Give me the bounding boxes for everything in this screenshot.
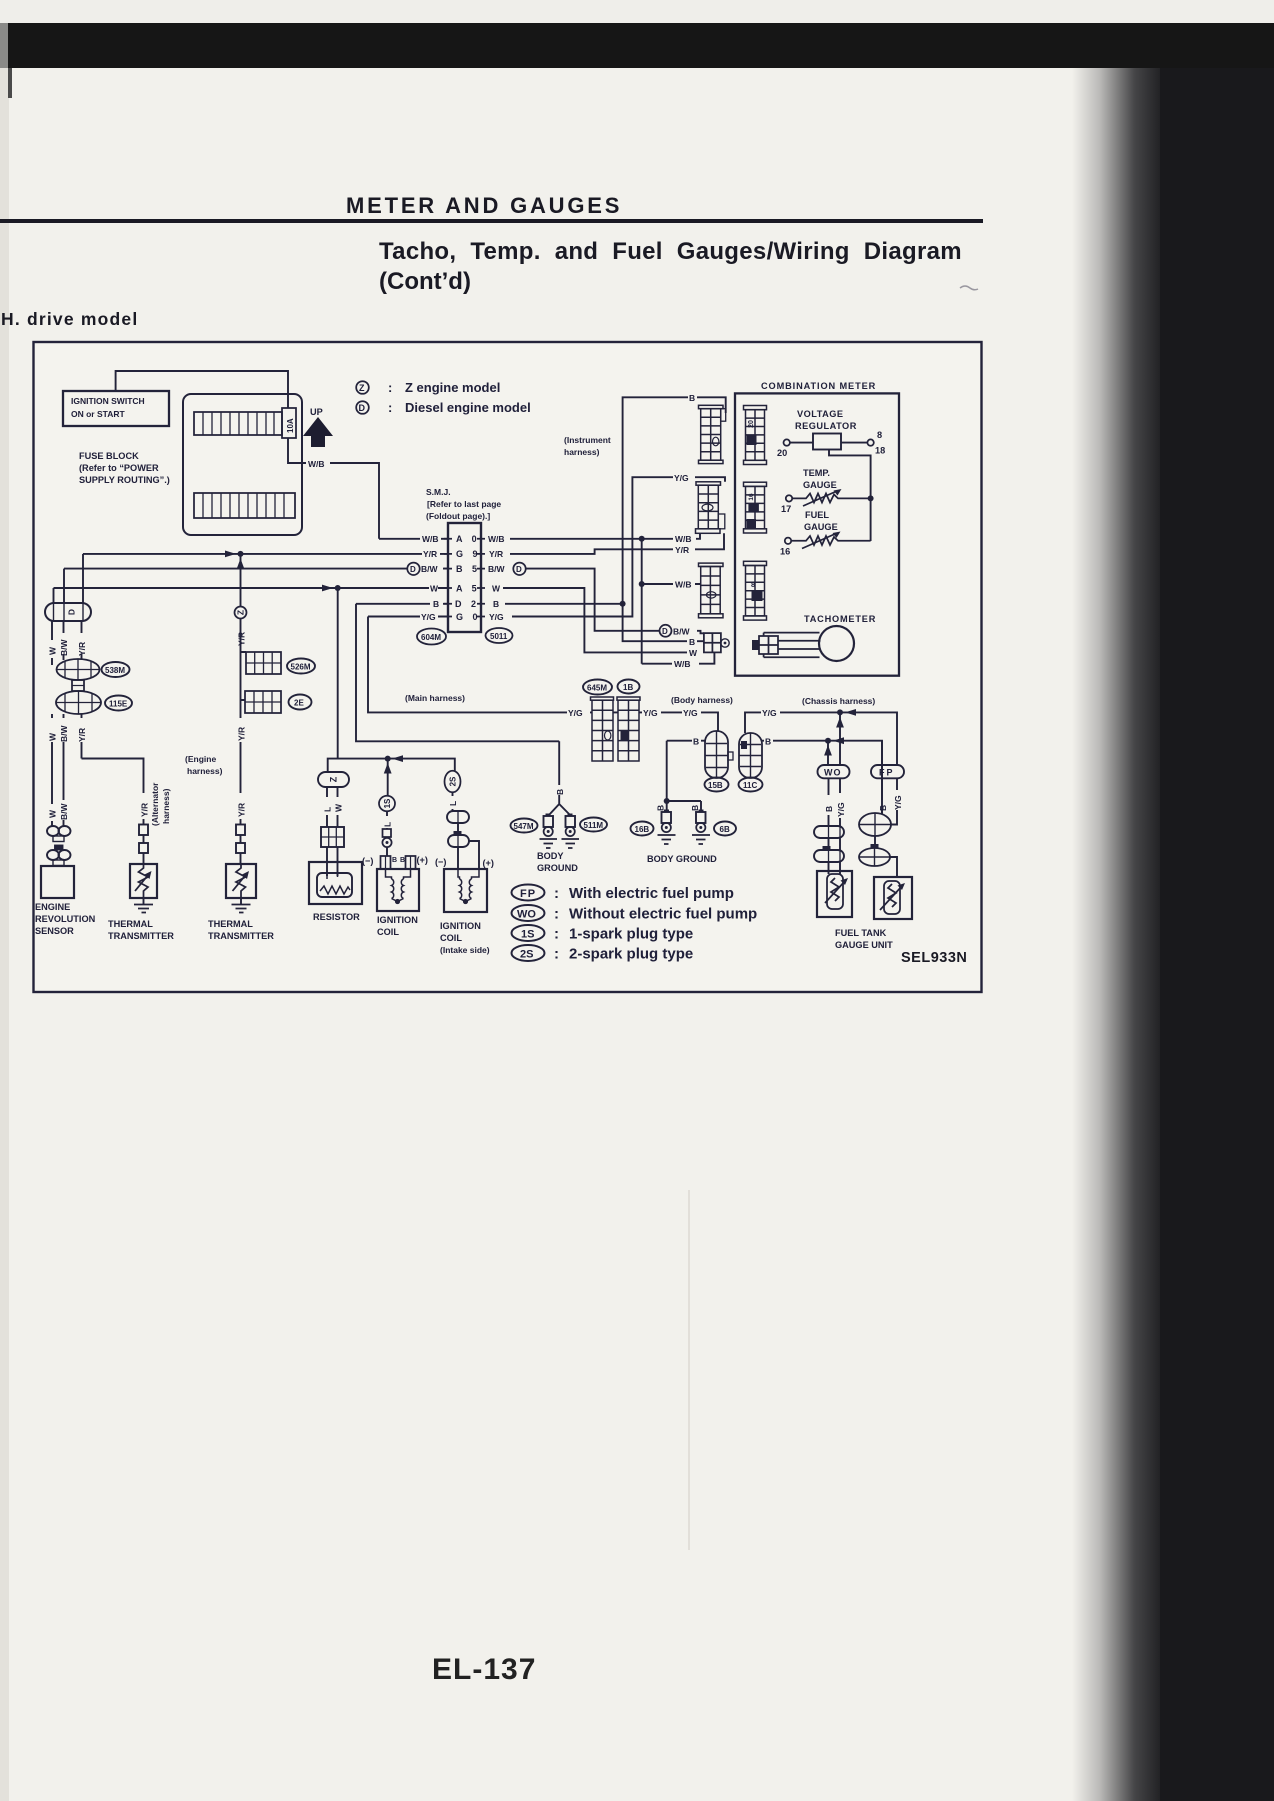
connector ref 604M <box>417 629 446 645</box>
6B ref oval <box>714 822 736 836</box>
svg-text:B/W: B/W <box>673 627 691 637</box>
inline connector ring 1S <box>382 838 391 847</box>
15B ref oval <box>705 778 729 792</box>
svg-text:Y/R: Y/R <box>77 728 87 742</box>
svg-text:8: 8 <box>877 430 882 440</box>
faint centre crease <box>688 1190 690 1550</box>
temp gauge element <box>792 494 870 503</box>
svg-text:Y/G: Y/G <box>421 612 436 622</box>
svg-text:Y/R: Y/R <box>237 803 247 817</box>
connector 645M ref oval <box>583 680 612 695</box>
svg-text:Diesel engine model: Diesel engine model <box>405 400 531 415</box>
wire B loop from SMJ D2 <box>356 604 559 742</box>
svg-text:REGULATOR: REGULATOR <box>795 421 857 431</box>
svg-text:526M: 526M <box>291 663 311 672</box>
Y/R wire from Z circle down to thermal transmitter 2 <box>241 619 247 865</box>
svg-text:B: B <box>693 737 699 747</box>
svg-text:D: D <box>662 627 668 636</box>
svg-text:[Refer to last page: [Refer to last page <box>427 499 501 509</box>
svg-text:(Engine: (Engine <box>185 754 216 764</box>
svg-text:(+): (+) <box>417 855 428 865</box>
ignition coil 2 windings <box>458 869 479 902</box>
wire into right fuel tank gauge unit <box>890 857 897 877</box>
wire fuse to W/B to SMJ A0 <box>288 438 379 539</box>
wire Y/G from SMJ G0 up <box>512 477 725 616</box>
body ground right B wire <box>667 741 701 812</box>
connector 2S circle <box>445 771 461 793</box>
svg-text:VOLTAGE: VOLTAGE <box>797 409 844 419</box>
svg-text:W: W <box>48 809 58 818</box>
svg-text:Without electric fuel pump: Without electric fuel pump <box>569 906 757 923</box>
voltage regulator terminal 20 <box>784 439 790 445</box>
svg-text:Y/R: Y/R <box>77 642 87 656</box>
svg-text:With electric fuel pump: With electric fuel pump <box>569 885 734 902</box>
16B ref oval <box>631 822 654 836</box>
wires below WO <box>829 778 841 826</box>
svg-text:B: B <box>400 857 405 864</box>
svg-text:ENGINE: ENGINE <box>35 902 70 912</box>
wire B/W to bottom connector <box>697 631 704 634</box>
junction on B row <box>824 737 844 765</box>
top black scan bar <box>8 23 1274 68</box>
connector grid 645M <box>591 697 614 761</box>
fuse block body <box>183 394 302 535</box>
svg-text:A 5: A 5 <box>456 584 480 594</box>
svg-text:511M: 511M <box>584 821 604 830</box>
svg-text:547M: 547M <box>514 822 534 831</box>
svg-text::: : <box>388 380 392 395</box>
svg-text:W: W <box>48 646 58 655</box>
svg-text:TACHOMETER: TACHOMETER <box>804 614 876 624</box>
legend Diesel engine model <box>356 400 531 415</box>
svg-text:17: 17 <box>781 504 791 514</box>
junction on Y/R bus with branch to Z circle <box>225 551 244 608</box>
link 538M to 115E <box>72 680 84 691</box>
ignition switch box <box>63 391 169 426</box>
connector 1B ref oval <box>618 680 640 694</box>
connector 2E <box>245 691 281 713</box>
svg-text:B: B <box>689 637 695 647</box>
svg-text:A 0: A 0 <box>456 534 480 544</box>
svg-text:Z: Z <box>236 610 246 615</box>
svg-text:Y/G: Y/G <box>674 473 689 483</box>
svg-text:(Foldout page).]: (Foldout page).] <box>426 511 490 521</box>
Y/G row wires <box>567 712 897 765</box>
wire ignition switch to fuse 10A <box>116 371 288 408</box>
547M ref oval <box>511 819 538 833</box>
body ground left connector squares <box>544 816 554 827</box>
wire regulator to gauges junction <box>829 449 871 541</box>
svg-text:L: L <box>323 807 333 812</box>
inline pill connector 2S lower <box>448 831 469 847</box>
115E ref oval <box>105 696 132 711</box>
svg-text:FUEL: FUEL <box>805 510 829 520</box>
svg-text:BODY GROUND: BODY GROUND <box>647 854 717 864</box>
svg-text:ON or START: ON or START <box>71 409 125 419</box>
D circle at instrument B/W <box>660 625 672 637</box>
svg-text:B: B <box>493 599 499 609</box>
svg-text:W: W <box>430 584 439 594</box>
svg-text:(Alternator: (Alternator <box>150 782 160 826</box>
svg-text:16: 16 <box>780 547 790 557</box>
gauge element right <box>880 881 902 914</box>
svg-text:B/W: B/W <box>421 564 439 574</box>
svg-text:W: W <box>492 584 501 594</box>
svg-text:D: D <box>410 565 416 574</box>
svg-text::: : <box>388 400 392 415</box>
svg-text:W: W <box>334 803 344 812</box>
connector FP pill <box>871 765 904 778</box>
svg-text:2-spark plug type: 2-spark plug type <box>569 946 693 963</box>
wire below 1S <box>386 811 388 856</box>
thermal transmitter 1 box <box>130 864 157 898</box>
wire W bus left drop <box>53 588 55 603</box>
instrument connector grid 1 <box>699 405 726 463</box>
svg-text:1B: 1B <box>623 683 633 692</box>
svg-text:W/B: W/B <box>308 459 325 469</box>
wire W bus <box>54 587 449 589</box>
connector 526M <box>246 652 281 674</box>
svg-text:WO: WO <box>824 768 842 778</box>
svg-text::: : <box>554 926 559 943</box>
bullet connectors above engine revolution sensor <box>47 826 71 866</box>
svg-text:Y/R: Y/R <box>675 545 689 555</box>
inline connector squares TT1 <box>139 825 148 836</box>
svg-text:B: B <box>392 857 397 864</box>
svg-text:W/B: W/B <box>488 534 505 544</box>
wire W/B bus into SMJ <box>379 538 420 540</box>
wire Y/R bus left drop to connector D <box>82 554 84 603</box>
tachometer wires <box>764 633 821 658</box>
svg-text:Y/G: Y/G <box>643 708 658 718</box>
wire Y/R from SMJ G9 <box>510 533 724 554</box>
junction on W bus with branch down to resistor area <box>322 585 341 759</box>
svg-text:20: 20 <box>777 448 787 458</box>
thermistor symbol TT2 <box>236 864 246 898</box>
svg-text:SUPPLY ROUTING”.): SUPPLY ROUTING”.) <box>79 475 170 485</box>
junction with arrow on coil feed wire <box>384 755 403 796</box>
D circle left of SMJ B5 <box>407 563 419 575</box>
svg-text:TRANSMITTER: TRANSMITTER <box>208 931 274 941</box>
engine revolution sensor box <box>41 866 74 898</box>
wires below connector D <box>52 621 82 665</box>
wire B/W bus left drop <box>63 569 65 603</box>
wire B/W bus <box>64 568 448 570</box>
wire B/W from SMJ B5 down <box>526 569 660 631</box>
gauge element left <box>825 874 845 909</box>
svg-text:Y/R: Y/R <box>489 549 503 559</box>
wire Y/G loop from SMJ G0 <box>368 617 567 713</box>
svg-text:GROUND: GROUND <box>537 863 578 873</box>
svg-text:TEMP.: TEMP. <box>803 468 830 478</box>
svg-text:2S: 2S <box>449 776 458 786</box>
svg-text:(Body harness): (Body harness) <box>671 695 733 705</box>
wire between FP connectors <box>874 836 876 848</box>
svg-text:harness): harness) <box>564 447 600 457</box>
svg-text:FP: FP <box>520 888 536 900</box>
svg-text:W/B: W/B <box>675 580 692 590</box>
body ground right rings <box>662 823 671 832</box>
WO lower inline pill <box>814 846 844 862</box>
voltage regulator wires <box>790 442 867 444</box>
fuel gauge terminal 16 <box>785 538 791 544</box>
svg-text:Y/R: Y/R <box>140 803 150 817</box>
tachometer connector <box>752 636 778 654</box>
legend 1S <box>512 925 694 943</box>
fuel gauge element <box>791 536 870 545</box>
wires below Z pill <box>327 787 338 827</box>
fuse strip bottom <box>194 493 295 518</box>
body ground left rings <box>544 827 553 836</box>
body ground right connector square tabs <box>664 810 669 813</box>
resistor box <box>309 862 362 904</box>
instrument bottom connector <box>704 633 729 652</box>
S.M.J. connector box <box>448 523 481 632</box>
svg-text:(−): (−) <box>435 857 446 867</box>
svg-text:D: D <box>67 609 77 615</box>
svg-text:1-spark plug type: 1-spark plug type <box>569 926 693 943</box>
junction dots on W/B net <box>639 536 645 542</box>
svg-text:(−): (−) <box>362 856 373 866</box>
svg-text:B: B <box>689 393 695 403</box>
ground symbols body ground right <box>658 835 676 844</box>
wire W/B bottom into connector <box>642 652 715 663</box>
body ground right connector squares <box>662 812 672 823</box>
svg-text:COIL: COIL <box>440 933 462 943</box>
svg-text:IGNITION SWITCH: IGNITION SWITCH <box>71 396 145 406</box>
svg-text:METER AND GAUGES: METER AND GAUGES <box>346 193 622 218</box>
body ground left B wire <box>549 741 571 815</box>
D circle right of SMJ B5 <box>513 563 525 575</box>
svg-text::: : <box>554 906 559 923</box>
svg-text:B/W: B/W <box>59 725 69 743</box>
connector WO pill <box>818 765 850 778</box>
thermal transmitter 2 box <box>226 864 256 898</box>
svg-text:GAUGE UNIT: GAUGE UNIT <box>835 940 893 950</box>
svg-text:645M: 645M <box>587 684 607 693</box>
svg-text:TRANSMITTER: TRANSMITTER <box>108 931 174 941</box>
svg-text:538M: 538M <box>105 666 125 675</box>
ignition coil 2 box <box>444 869 487 912</box>
wire W/B vertical branch <box>641 539 643 664</box>
legend Z engine model <box>356 380 500 395</box>
UP arrow <box>303 407 333 447</box>
svg-text:Z: Z <box>359 383 365 393</box>
body ground left connector square tabs <box>546 814 551 817</box>
inline connector squares TT2 <box>236 825 245 836</box>
legend WO <box>512 905 758 923</box>
svg-text:(Refer to “POWER: (Refer to “POWER <box>79 463 159 473</box>
legend FP <box>512 885 734 903</box>
svg-text:H. drive model: H. drive model <box>1 309 138 329</box>
svg-text:IGNITION: IGNITION <box>440 921 481 931</box>
svg-text:Y/G: Y/G <box>568 708 583 718</box>
svg-text:16: 16 <box>748 493 755 501</box>
svg-text:115E: 115E <box>109 700 128 709</box>
svg-text:FUEL TANK: FUEL TANK <box>835 928 887 938</box>
fuse 10A <box>282 408 296 438</box>
svg-text:2E: 2E <box>294 699 304 708</box>
connector D (engine harness) <box>45 603 91 621</box>
horizontal wire to ignition coils <box>328 759 455 772</box>
Y/G labels on row <box>568 708 777 718</box>
svg-text:UP: UP <box>310 407 323 417</box>
ground symbol left pair <box>540 839 558 848</box>
connector 538M <box>57 659 100 680</box>
svg-text:G 0: G 0 <box>456 612 481 622</box>
svg-text:6B: 6B <box>720 825 730 834</box>
ground TT2 <box>240 898 242 904</box>
svg-text:Tacho, Temp. and Fuel Gauges/W: Tacho, Temp. and Fuel Gauges/Wiring Diag… <box>379 238 962 265</box>
wires into left fuel tank gauge unit <box>829 862 841 874</box>
526M ref oval <box>287 659 315 674</box>
tachometer dial <box>819 626 854 661</box>
svg-text::: : <box>554 885 559 902</box>
B row wires at 15B 11C <box>667 741 882 814</box>
wire B from SMJ D2 up to instrument connector <box>505 397 726 604</box>
title underline <box>0 219 983 223</box>
legend 2S <box>512 945 694 963</box>
meter connector grid C <box>744 561 767 620</box>
svg-text:FUSE BLOCK: FUSE BLOCK <box>79 451 139 461</box>
svg-text:8: 8 <box>751 580 755 589</box>
svg-text::: : <box>554 946 559 963</box>
svg-text:D: D <box>359 403 366 413</box>
wire B lower branch <box>623 604 704 641</box>
svg-text:G 9: G 9 <box>456 549 481 559</box>
svg-text:(+): (+) <box>483 858 494 868</box>
SMJ left wire labels <box>421 534 439 622</box>
junction on Y/G row <box>836 709 856 765</box>
svg-text:Y/R: Y/R <box>237 632 247 646</box>
svg-text:5011: 5011 <box>490 632 508 641</box>
2E ref oval <box>289 695 312 710</box>
ignition coil 1 box <box>377 869 419 911</box>
svg-text:16B: 16B <box>635 825 650 834</box>
svg-text:Z engine model: Z engine model <box>405 380 500 395</box>
svg-text:SENSOR: SENSOR <box>35 926 74 936</box>
svg-text:EL-137: EL-137 <box>432 1653 536 1686</box>
svg-text:BODY: BODY <box>537 851 564 861</box>
inline connector square 1S <box>383 829 392 837</box>
svg-text:B: B <box>824 806 834 812</box>
svg-text:Y/R: Y/R <box>237 727 247 741</box>
svg-text:B/W: B/W <box>488 564 506 574</box>
Y/R wire from 115E to thermal transmitter 1 <box>82 759 144 865</box>
svg-text:COIL: COIL <box>377 927 399 937</box>
SMJ right wire labels <box>488 534 506 622</box>
SMJ row ticks <box>444 539 485 617</box>
svg-text:Y/R: Y/R <box>423 549 437 559</box>
svg-text:B/W: B/W <box>59 803 69 821</box>
wires into resistor <box>327 847 338 876</box>
wire labels right of SMJ <box>673 393 698 669</box>
svg-text:GAUGE: GAUGE <box>803 480 837 490</box>
fuel tank gauge unit box left <box>817 871 852 917</box>
svg-text:D 2: D 2 <box>455 599 480 609</box>
wire W/B from SMJ A0 to instrument connector <box>510 533 700 539</box>
Z circle on Y/R branch <box>235 607 247 619</box>
svg-text:D: D <box>516 565 522 574</box>
connector 15B pill <box>705 731 733 778</box>
svg-text:harness): harness) <box>187 766 223 776</box>
wire Y/R bus <box>83 553 448 555</box>
svg-text:(Chassis harness): (Chassis harness) <box>802 696 875 706</box>
svg-text:(Cont’d): (Cont’d) <box>379 268 471 295</box>
WO upper inline pill <box>814 826 844 838</box>
meter connector grid B <box>744 482 767 533</box>
svg-text:15B: 15B <box>708 781 723 790</box>
fuel tank gauge unit box right <box>874 877 912 919</box>
wire below 2S <box>453 792 480 869</box>
wire W from SMJ A5 down <box>503 588 687 652</box>
svg-text:B: B <box>433 599 439 609</box>
connector 11C pill <box>739 733 762 778</box>
meter connector grid A <box>744 406 767 465</box>
FP upper inline connector <box>859 813 891 836</box>
resistor connector grid <box>321 827 344 847</box>
thermistor symbol TT1 <box>139 864 149 898</box>
511M ref oval <box>580 818 607 832</box>
svg-text:Y/G: Y/G <box>893 795 903 810</box>
svg-text:Y/G: Y/G <box>836 802 846 817</box>
connector grid 1B <box>617 697 640 761</box>
junction dot on B net <box>620 601 626 607</box>
wires below FP <box>882 741 897 825</box>
svg-text:L: L <box>383 822 393 827</box>
svg-text:COMBINATION METER: COMBINATION METER <box>761 381 876 391</box>
connector 1S circle <box>379 796 395 812</box>
svg-text:(Intake side): (Intake side) <box>440 945 490 955</box>
SMJ pin names <box>455 534 481 622</box>
connector Z (pill) <box>318 772 349 787</box>
wires between WO pills <box>829 838 841 850</box>
wires below 115E <box>52 714 82 826</box>
svg-text:REVOLUTION: REVOLUTION <box>35 914 96 924</box>
svg-text:Z: Z <box>329 776 339 782</box>
svg-text:Y/G: Y/G <box>489 612 504 622</box>
svg-text:W/B: W/B <box>674 659 691 669</box>
voltage regulator box <box>813 434 841 450</box>
svg-text:10A: 10A <box>286 418 295 433</box>
svg-text:(Main harness): (Main harness) <box>405 693 465 703</box>
svg-text:B: B <box>765 737 771 747</box>
svg-text:(Instrument: (Instrument <box>564 435 611 445</box>
voltage regulator terminal 8/18 <box>867 439 873 445</box>
svg-text:SEL933N: SEL933N <box>901 950 967 966</box>
FP lower inline connector <box>859 844 890 866</box>
svg-text:L: L <box>448 801 458 806</box>
svg-text:W/B: W/B <box>422 534 439 544</box>
svg-text:18: 18 <box>875 446 885 456</box>
instrument connector grid 2 <box>696 482 725 534</box>
svg-text:harness): harness) <box>161 788 171 824</box>
svg-text:1S: 1S <box>383 798 392 808</box>
svg-text:Y/G: Y/G <box>683 708 698 718</box>
11C ref oval <box>739 778 763 792</box>
instrument connector grid 3 <box>699 563 724 618</box>
fuse strip top <box>194 412 282 435</box>
svg-text:B: B <box>555 789 565 795</box>
svg-text:2S: 2S <box>520 949 533 961</box>
svg-text:1S: 1S <box>521 929 534 941</box>
svg-text:604M: 604M <box>421 633 441 642</box>
svg-text:Y/G: Y/G <box>762 708 777 718</box>
svg-text:11C: 11C <box>743 781 757 790</box>
svg-text:GAUGE: GAUGE <box>804 522 838 532</box>
connector 115E <box>56 691 101 714</box>
svg-text:RESISTOR: RESISTOR <box>313 912 360 922</box>
